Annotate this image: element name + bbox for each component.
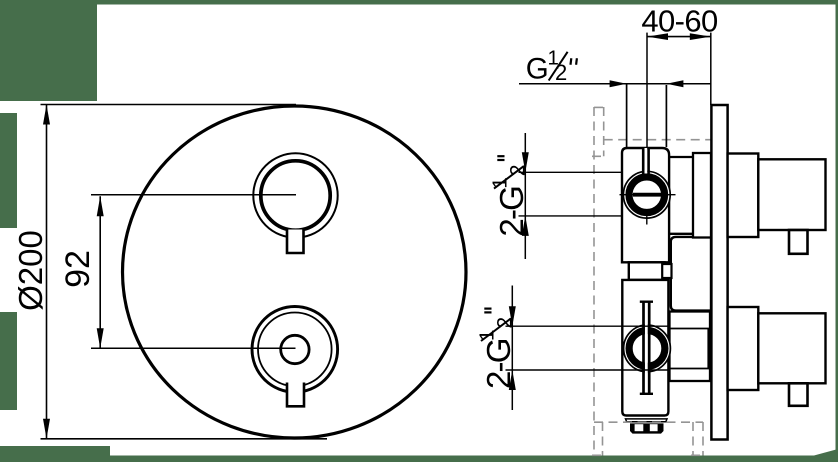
valve body lower block: [622, 280, 668, 416]
top port: outer circle: [623, 171, 670, 218]
right extension line (plate front): [710, 33, 712, 105]
valve body waist: [629, 262, 665, 280]
dashed recess box top-left pocket: [603, 107, 605, 156]
svg-text:2: 2: [555, 60, 567, 85]
leader line to top knob centre: [91, 194, 296, 196]
dashed recess box bottom horizontal: [594, 421, 703, 423]
green border: top strip: [97, 0, 838, 5]
cover plate edge-on: [711, 105, 727, 440]
green page border: top-left block: [0, 0, 97, 101]
bottom knob lever tab: [287, 383, 304, 407]
label G1/2": [526, 46, 577, 85]
bottom boss inner rect: [670, 329, 709, 369]
bottom port: outer circle: [624, 325, 671, 372]
G1/2 top supply stub lines: [626, 84, 628, 148]
small connector bump on body right side: [662, 264, 671, 278]
bottom outlet nipple (black): [630, 423, 664, 433]
svg-text:G: G: [526, 52, 549, 85]
svg-text:2-G: 2-G: [480, 339, 517, 389]
top boss between body and flange: [667, 156, 693, 158]
top 2-G1/2 extension lines: [519, 171, 623, 173]
top handle tab: [789, 230, 808, 254]
dashed wall top horizontal: [604, 139, 715, 141]
nipple windows: [635, 424, 644, 431]
G1/2 leader line: [519, 83, 711, 85]
svg-text:92: 92: [59, 250, 97, 288]
green border: bottom strip: [0, 456, 838, 462]
bottom knob (volume handle) outer circle: [252, 307, 338, 393]
dim extension line bottom of plate: [41, 438, 328, 440]
bottom knob centre button: [281, 335, 309, 363]
top port horizontal centreline: [620, 194, 676, 196]
central mounting bracket behind plate: [671, 237, 711, 311]
dimension line 92: [99, 196, 101, 348]
bottom outlet washer: [626, 419, 668, 422]
adjustment spindle into top port: [644, 148, 647, 174]
top knob lever tab: [287, 230, 304, 254]
top handle body: [758, 159, 825, 230]
bottom 2-G1/2 dimension line: [511, 286, 513, 411]
top knob (thermostat handle) outer circle: [253, 153, 337, 237]
svg-text:Ø200: Ø200: [12, 230, 49, 311]
bottom port: thick ring: [629, 331, 665, 367]
dashed wall line left: [593, 107, 595, 456]
dimension line 40-60: [647, 36, 711, 38]
valve body upper block: [622, 148, 669, 262]
bottom 2-G1/2 extension lines: [506, 325, 670, 327]
label 2-G1/2" bottom (rotated): [475, 309, 517, 389]
40-60 left extension line / port centreline: [646, 33, 648, 148]
top port: thick ring: [629, 177, 665, 213]
dashed recess box bottom: [602, 422, 604, 456]
green border: bottom-left block: [0, 446, 110, 462]
bottom sleeve flange: [670, 312, 711, 382]
top port screw slot: [633, 193, 661, 197]
bottom handle body: [758, 313, 825, 383]
green border: right strip: [836, 4, 838, 456]
volume spindle rod through bottom port: [645, 302, 648, 394]
bottom handle stem: [728, 307, 759, 390]
svg-text:2-G: 2-G: [493, 187, 530, 237]
svg-text:40-60: 40-60: [641, 4, 718, 39]
green border: left strip segments: [0, 113, 17, 228]
top sleeve flange: [693, 153, 711, 238]
bottom handle tab: [789, 383, 808, 406]
dim extension line top of plate: [41, 104, 297, 106]
top port vertical centreline stub: [646, 212, 648, 225]
label 2-G1/2" top (rotated): [488, 156, 530, 236]
leader line to bottom knob centre: [91, 347, 296, 349]
bottom knob inner circle: [258, 313, 332, 387]
top knob ring: [261, 161, 330, 230]
top 2-G1/2 dimension line: [524, 133, 526, 259]
front view: round cover plate: [123, 106, 467, 438]
top handle stem: [728, 154, 759, 238]
dimension line D200: [46, 105, 48, 439]
